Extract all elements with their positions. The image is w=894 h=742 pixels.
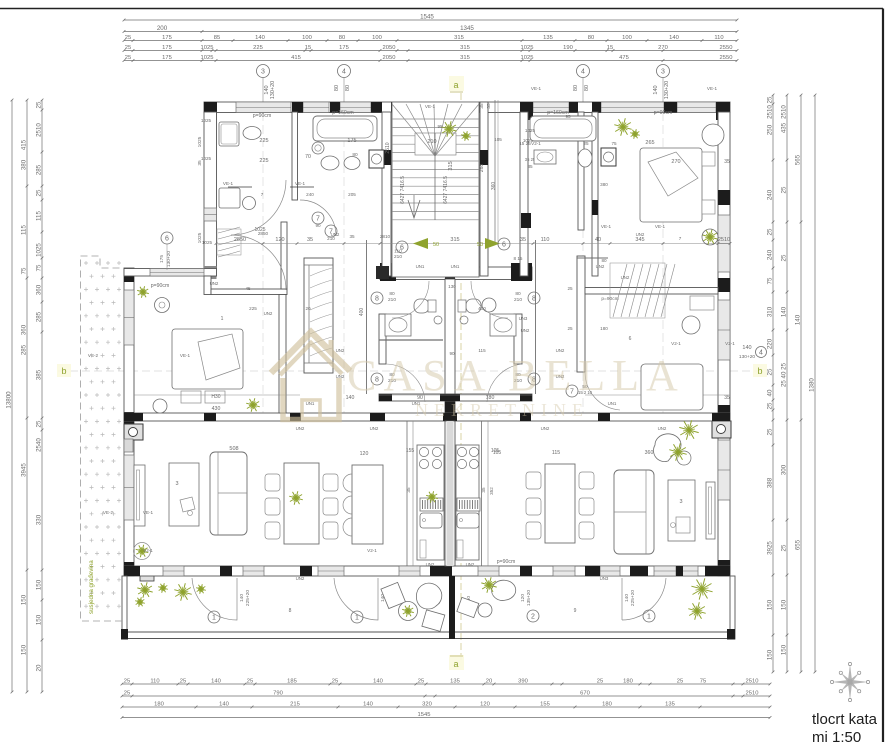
svg-text:315: 315 bbox=[448, 161, 454, 170]
svg-text:140: 140 bbox=[653, 85, 659, 94]
svg-text:315: 315 bbox=[460, 45, 470, 51]
bath2 sink circle bbox=[312, 142, 324, 154]
svg-text:3945: 3945 bbox=[21, 463, 28, 477]
door arcs top block bbox=[300, 200, 336, 236]
svg-text:25: 25 bbox=[767, 402, 774, 409]
svg-text:80: 80 bbox=[389, 291, 395, 297]
svg-text:225: 225 bbox=[253, 45, 263, 51]
svg-text:80: 80 bbox=[352, 152, 358, 158]
svg-text:140: 140 bbox=[669, 35, 679, 41]
wall second mid (bath south) bbox=[379, 394, 532, 401]
svg-text:140: 140 bbox=[239, 594, 245, 602]
corner pier circles bbox=[124, 424, 143, 440]
svg-text:75: 75 bbox=[21, 267, 28, 274]
svg-text:VE-1: VE-1 bbox=[295, 181, 306, 186]
svg-text:240: 240 bbox=[767, 249, 774, 260]
svg-text:35: 35 bbox=[349, 234, 355, 239]
svg-text:1: 1 bbox=[355, 614, 359, 621]
svg-text:7: 7 bbox=[261, 192, 264, 197]
svg-text:215: 215 bbox=[290, 702, 300, 708]
svg-text:150: 150 bbox=[767, 599, 774, 610]
bedroom right bed bbox=[640, 148, 702, 222]
frame top line bbox=[0, 8, 883, 10]
svg-text:150: 150 bbox=[36, 579, 43, 590]
svg-text:300: 300 bbox=[781, 464, 788, 475]
svg-text:35: 35 bbox=[307, 237, 313, 243]
svg-text:75: 75 bbox=[767, 277, 774, 284]
svg-text:20: 20 bbox=[36, 664, 43, 671]
svg-text:35: 35 bbox=[724, 395, 730, 401]
svg-text:CASA BELLA: CASA BELLA bbox=[347, 351, 685, 400]
svg-text:670: 670 bbox=[580, 691, 590, 697]
compass rose bbox=[848, 664, 852, 682]
svg-text:6: 6 bbox=[502, 241, 506, 248]
svg-text:415: 415 bbox=[291, 55, 301, 61]
svg-text:6427 7416.5: 6427 7416.5 bbox=[443, 176, 449, 204]
svg-text:2540: 2540 bbox=[36, 438, 43, 452]
svg-text:380: 380 bbox=[600, 182, 608, 187]
svg-text:4: 4 bbox=[581, 68, 585, 75]
svg-text:110: 110 bbox=[541, 237, 550, 243]
svg-text:80: 80 bbox=[588, 35, 594, 41]
svg-text:315: 315 bbox=[460, 55, 470, 61]
svg-text:352: 352 bbox=[489, 487, 494, 495]
cbath right toilet bbox=[466, 299, 481, 313]
svg-text:1380: 1380 bbox=[809, 378, 816, 392]
svg-text:200: 200 bbox=[157, 25, 168, 32]
svg-text:270: 270 bbox=[658, 45, 668, 51]
svg-text:140: 140 bbox=[363, 702, 373, 708]
section line b-b bbox=[58, 370, 768, 372]
svg-text:150: 150 bbox=[781, 599, 788, 610]
svg-text:508: 508 bbox=[229, 446, 238, 452]
svg-text:p=90cm: p=90cm bbox=[151, 283, 170, 289]
interior wall verticals upper block bbox=[292, 112, 298, 200]
svg-text:25: 25 bbox=[36, 420, 43, 427]
svg-text:150: 150 bbox=[781, 644, 788, 655]
svg-text:130: 130 bbox=[448, 284, 456, 289]
svg-text:15 25: 15 25 bbox=[519, 141, 531, 146]
svg-text:1025: 1025 bbox=[525, 128, 536, 133]
svg-text:110: 110 bbox=[394, 249, 402, 255]
svg-text:NEKRETNINE: NEKRETNINE bbox=[415, 400, 589, 420]
svg-text:25: 25 bbox=[767, 228, 774, 235]
top wall piers bbox=[204, 102, 217, 120]
kitchen back walls bbox=[406, 421, 408, 566]
svg-text:180: 180 bbox=[600, 326, 608, 331]
svg-text:140: 140 bbox=[211, 679, 221, 685]
svg-text:175: 175 bbox=[162, 35, 172, 41]
svg-text:25: 25 bbox=[567, 286, 573, 291]
svg-text:50: 50 bbox=[433, 242, 439, 248]
green arrow right bbox=[485, 238, 500, 249]
svg-text:80: 80 bbox=[334, 85, 340, 91]
svg-text:V2-1: V2-1 bbox=[367, 548, 377, 553]
right dimension chain bbox=[772, 95, 774, 672]
svg-text:45: 45 bbox=[245, 286, 251, 291]
svg-text:25: 25 bbox=[597, 679, 603, 685]
svg-text:25: 25 bbox=[332, 679, 338, 685]
svg-text:105: 105 bbox=[494, 137, 502, 142]
bath1 washer bbox=[219, 122, 239, 146]
svg-text:1545: 1545 bbox=[418, 712, 431, 718]
svg-text:35: 35 bbox=[724, 159, 730, 165]
armchair right living bbox=[653, 434, 681, 462]
svg-text:35: 35 bbox=[527, 164, 533, 169]
svg-text:VE-1: VE-1 bbox=[707, 86, 718, 91]
svg-text:90: 90 bbox=[315, 223, 321, 228]
svg-text:40: 40 bbox=[595, 237, 601, 243]
wall under stairs bbox=[380, 267, 532, 280]
svg-text:320: 320 bbox=[422, 702, 432, 708]
svg-text:UN1: UN1 bbox=[608, 401, 617, 406]
party wall lower bbox=[445, 421, 455, 566]
svg-text:2810: 2810 bbox=[380, 234, 391, 239]
svg-text:120: 120 bbox=[520, 594, 526, 602]
svg-text:265: 265 bbox=[645, 140, 654, 146]
svg-text:8: 8 bbox=[289, 608, 292, 614]
svg-text:130+20: 130+20 bbox=[739, 354, 755, 360]
svg-text:175: 175 bbox=[162, 45, 172, 51]
svg-text:70: 70 bbox=[305, 154, 311, 160]
living left dining table bbox=[284, 463, 319, 544]
svg-text:UN2: UN2 bbox=[210, 281, 219, 286]
svg-text:UN2: UN2 bbox=[370, 426, 379, 431]
svg-text:175: 175 bbox=[159, 255, 165, 263]
svg-text:UN1: UN1 bbox=[451, 264, 460, 269]
svg-text:285: 285 bbox=[36, 164, 43, 175]
bath2 washer bbox=[369, 150, 384, 168]
svg-text:175: 175 bbox=[339, 45, 349, 51]
bath1 sink bbox=[243, 127, 261, 140]
stairwell bbox=[392, 102, 479, 277]
plants near stair top bbox=[449, 129, 457, 131]
svg-text:35: 35 bbox=[486, 103, 491, 109]
svg-text:1025: 1025 bbox=[201, 156, 212, 161]
svg-text:315: 315 bbox=[454, 35, 464, 41]
living left table3 bbox=[169, 463, 199, 526]
bath2 bidet bbox=[344, 157, 360, 170]
svg-text:225: 225 bbox=[249, 306, 257, 311]
cbath left toilet bbox=[414, 299, 429, 313]
balcony furniture left-right group bbox=[381, 582, 445, 631]
svg-text:2850: 2850 bbox=[234, 237, 246, 243]
svg-text:130+20: 130+20 bbox=[664, 81, 670, 100]
svg-text:VE-1: VE-1 bbox=[601, 224, 612, 229]
svg-text:1: 1 bbox=[221, 316, 224, 322]
svg-text:35: 35 bbox=[481, 487, 486, 493]
svg-text:2510: 2510 bbox=[746, 691, 759, 697]
svg-text:VE-1: VE-1 bbox=[223, 181, 234, 186]
svg-text:13800: 13800 bbox=[6, 391, 13, 409]
green arrow left bbox=[413, 238, 428, 249]
balcony furniture right unit bbox=[457, 580, 516, 617]
dark utility box bbox=[376, 266, 389, 279]
svg-text:240: 240 bbox=[767, 189, 774, 200]
svg-text:1025: 1025 bbox=[521, 45, 534, 51]
svg-text:80: 80 bbox=[601, 258, 607, 263]
svg-text:25: 25 bbox=[125, 35, 131, 41]
hall boundary thin walls bbox=[366, 240, 368, 394]
svg-text:80: 80 bbox=[515, 291, 521, 297]
svg-text:15: 15 bbox=[607, 45, 613, 51]
svg-text:UN3: UN3 bbox=[519, 316, 528, 321]
svg-text:25: 25 bbox=[781, 544, 788, 551]
svg-text:380: 380 bbox=[21, 159, 28, 170]
svg-text:b: b bbox=[757, 366, 762, 376]
svg-text:115: 115 bbox=[36, 211, 43, 221]
svg-text:p=90cm: p=90cm bbox=[253, 113, 272, 119]
svg-text:25: 25 bbox=[767, 368, 774, 375]
bath3 toilet bbox=[578, 149, 592, 167]
svg-text:25: 25 bbox=[125, 55, 131, 61]
left dimension chain bbox=[11, 100, 13, 692]
living left TV cabinet bbox=[134, 465, 145, 526]
wall left main bbox=[124, 268, 134, 576]
svg-text:mj 1:50: mj 1:50 bbox=[812, 729, 861, 742]
svg-text:1025: 1025 bbox=[521, 55, 534, 61]
bath2 bathtub bbox=[313, 116, 377, 141]
svg-text:25: 25 bbox=[583, 141, 589, 146]
svg-text:155: 155 bbox=[540, 702, 550, 708]
svg-text:V2-1: V2-1 bbox=[671, 341, 681, 346]
svg-text:UN2: UN2 bbox=[636, 232, 645, 237]
svg-text:100: 100 bbox=[372, 35, 382, 41]
svg-text:155: 155 bbox=[406, 448, 415, 454]
svg-text:135+20: 135+20 bbox=[526, 590, 532, 606]
svg-text:1025: 1025 bbox=[201, 45, 214, 51]
wardrobe hatch left bbox=[217, 227, 241, 257]
balcony door arcs bbox=[192, 578, 237, 620]
svg-text:135: 135 bbox=[665, 702, 675, 708]
svg-text:p=90cm: p=90cm bbox=[601, 296, 618, 302]
section line a-a bbox=[460, 93, 462, 660]
svg-text:2510: 2510 bbox=[36, 123, 43, 137]
svg-text:20: 20 bbox=[305, 306, 311, 311]
svg-text:95: 95 bbox=[437, 124, 443, 129]
svg-text:8: 8 bbox=[532, 295, 536, 302]
svg-text:475: 475 bbox=[619, 55, 629, 61]
balcony slab left bbox=[122, 576, 127, 639]
svg-text:360: 360 bbox=[491, 182, 497, 191]
svg-text:135: 135 bbox=[450, 679, 460, 685]
door arcs central bbox=[392, 281, 429, 318]
svg-text:UN3: UN3 bbox=[600, 576, 609, 581]
svg-text:1025: 1025 bbox=[197, 136, 203, 147]
svg-text:140: 140 bbox=[781, 306, 788, 317]
svg-text:565: 565 bbox=[795, 154, 802, 165]
svg-text:150: 150 bbox=[21, 594, 28, 605]
svg-text:225+20: 225+20 bbox=[630, 590, 636, 606]
wall bottom main bbox=[124, 566, 730, 576]
bath1 shower + stool bbox=[219, 188, 240, 208]
corridor dim line bbox=[216, 243, 730, 245]
svg-text:388: 388 bbox=[767, 477, 774, 488]
svg-text:130+20: 130+20 bbox=[270, 81, 276, 100]
svg-text:345: 345 bbox=[635, 237, 644, 243]
living left island bbox=[352, 465, 383, 544]
living left sofa bbox=[210, 452, 247, 535]
svg-text:7: 7 bbox=[679, 236, 682, 241]
terrace dashed outline bbox=[81, 256, 123, 621]
svg-text:20: 20 bbox=[486, 679, 492, 685]
party wall stem bbox=[445, 279, 455, 413]
svg-text:25: 25 bbox=[180, 679, 186, 685]
svg-text:VE-1: VE-1 bbox=[425, 104, 436, 109]
svg-text:790: 790 bbox=[273, 691, 283, 697]
svg-text:3: 3 bbox=[175, 481, 178, 487]
top dimension chain bbox=[124, 19, 737, 21]
living left plants bbox=[296, 498, 303, 500]
bedroom1 bed bbox=[172, 329, 243, 389]
svg-text:4: 4 bbox=[759, 349, 763, 356]
svg-text:385: 385 bbox=[36, 369, 43, 380]
svg-text:400: 400 bbox=[478, 306, 486, 311]
svg-text:UN2: UN2 bbox=[264, 311, 273, 316]
svg-text:UN2: UN2 bbox=[658, 426, 667, 431]
svg-text:25: 25 bbox=[247, 679, 253, 685]
svg-text:115: 115 bbox=[552, 450, 560, 456]
right balcony pier bbox=[676, 566, 683, 576]
svg-text:6: 6 bbox=[165, 235, 169, 242]
svg-text:35: 35 bbox=[479, 103, 484, 109]
svg-text:UN2: UN2 bbox=[466, 562, 475, 567]
svg-text:2510: 2510 bbox=[385, 142, 391, 153]
svg-text:3: 3 bbox=[661, 68, 665, 75]
svg-text:285: 285 bbox=[36, 311, 43, 322]
svg-text:80: 80 bbox=[345, 85, 351, 91]
svg-text:25: 25 bbox=[567, 326, 573, 331]
terrace dot pattern bbox=[84, 261, 121, 608]
svg-text:50: 50 bbox=[477, 242, 483, 248]
svg-text:8: 8 bbox=[375, 295, 379, 302]
svg-text:190: 190 bbox=[563, 45, 573, 51]
balcony divider bbox=[449, 576, 455, 639]
svg-text:a: a bbox=[453, 80, 458, 90]
bath2 toilet bbox=[321, 156, 339, 170]
svg-text:435: 435 bbox=[781, 122, 788, 133]
svg-text:85: 85 bbox=[214, 35, 220, 41]
svg-text:25: 25 bbox=[781, 186, 788, 193]
svg-text:25: 25 bbox=[36, 101, 43, 108]
svg-text:225: 225 bbox=[259, 158, 268, 164]
svg-text:9: 9 bbox=[574, 608, 577, 614]
wall h left y270 bbox=[124, 269, 217, 277]
svg-text:80: 80 bbox=[584, 85, 590, 91]
svg-text:35: 35 bbox=[406, 487, 411, 493]
living right TV bbox=[706, 482, 715, 539]
svg-text:210: 210 bbox=[514, 297, 522, 303]
svg-text:315: 315 bbox=[450, 237, 459, 243]
svg-text:135: 135 bbox=[543, 35, 553, 41]
svg-text:UN2: UN2 bbox=[336, 348, 345, 353]
svg-text:225: 225 bbox=[259, 138, 268, 144]
living right sofa bbox=[614, 470, 654, 554]
closet C-wall left unit bbox=[304, 258, 333, 373]
bath3 bathtub bbox=[530, 116, 596, 141]
svg-text:150: 150 bbox=[21, 644, 28, 655]
svg-text:VE-1: VE-1 bbox=[531, 86, 542, 91]
svg-text:p=160cm: p=160cm bbox=[332, 110, 354, 116]
svg-text:2510: 2510 bbox=[718, 237, 730, 243]
bedroom1 round table bbox=[153, 399, 167, 413]
svg-text:655: 655 bbox=[795, 539, 802, 550]
wall mid horizontal main bbox=[124, 413, 730, 421]
svg-text:285: 285 bbox=[21, 344, 28, 355]
svg-text:268: 268 bbox=[479, 164, 485, 173]
svg-text:3925: 3925 bbox=[767, 541, 774, 555]
plant bedroom1 bbox=[253, 405, 260, 407]
svg-text:205: 205 bbox=[348, 192, 356, 197]
svg-text:2510: 2510 bbox=[767, 105, 774, 119]
svg-text:6: 6 bbox=[629, 336, 632, 342]
living right dining table bbox=[545, 464, 575, 543]
svg-text:25: 25 bbox=[767, 428, 774, 435]
svg-text:95: 95 bbox=[565, 114, 571, 119]
svg-text:140: 140 bbox=[255, 35, 265, 41]
svg-text:8 15: 8 15 bbox=[514, 256, 523, 261]
svg-text:310: 310 bbox=[767, 306, 774, 317]
outer wall top bbox=[204, 102, 730, 113]
svg-text:415: 415 bbox=[21, 139, 28, 150]
svg-text:75: 75 bbox=[611, 141, 617, 146]
door arc right bedroom bbox=[585, 372, 620, 410]
svg-text:430: 430 bbox=[212, 406, 221, 412]
grid bubbles 3 4 4 3 bbox=[257, 65, 270, 78]
svg-text:220: 220 bbox=[767, 338, 774, 349]
svg-text:25: 25 bbox=[767, 96, 774, 103]
svg-text:100: 100 bbox=[302, 35, 312, 41]
svg-text:25: 25 bbox=[677, 679, 683, 685]
svg-text:25: 25 bbox=[36, 189, 43, 196]
wall right outer bbox=[718, 112, 730, 576]
interior walls middle band left unit bbox=[204, 276, 211, 295]
svg-text:1025: 1025 bbox=[201, 118, 212, 123]
svg-text:110: 110 bbox=[714, 35, 723, 41]
svg-text:p=90cm: p=90cm bbox=[654, 110, 673, 116]
svg-text:1545: 1545 bbox=[420, 14, 434, 21]
bath3 sink bbox=[534, 150, 556, 164]
svg-text:270: 270 bbox=[671, 159, 680, 165]
svg-text:15: 15 bbox=[305, 45, 311, 51]
svg-text:120: 120 bbox=[480, 702, 490, 708]
svg-text:175: 175 bbox=[162, 55, 172, 61]
svg-text:25: 25 bbox=[781, 254, 788, 261]
svg-text:p=90cm: p=90cm bbox=[497, 559, 516, 565]
svg-text:360: 360 bbox=[36, 284, 43, 295]
wall left upper bbox=[204, 112, 217, 276]
svg-text:7: 7 bbox=[316, 215, 320, 222]
svg-text:210: 210 bbox=[394, 254, 402, 260]
svg-text:4: 4 bbox=[342, 68, 346, 75]
living right table3 bbox=[668, 480, 695, 541]
svg-text:UN2: UN2 bbox=[331, 232, 340, 237]
svg-text:b: b bbox=[61, 366, 66, 376]
balcony plants left bbox=[145, 590, 153, 592]
svg-text:210: 210 bbox=[427, 139, 436, 145]
svg-text:75: 75 bbox=[700, 679, 706, 685]
svg-text:120: 120 bbox=[275, 237, 284, 243]
svg-text:120: 120 bbox=[360, 451, 369, 457]
svg-text:6427 7416.5: 6427 7416.5 bbox=[400, 176, 406, 204]
svg-text:2050: 2050 bbox=[383, 45, 396, 51]
svg-text:210: 210 bbox=[388, 297, 396, 303]
svg-text:V2-1: V2-1 bbox=[725, 341, 735, 346]
svg-text:140: 140 bbox=[624, 594, 630, 602]
svg-text:3: 3 bbox=[679, 499, 682, 505]
svg-text:185: 185 bbox=[287, 679, 297, 685]
svg-text:VE-1: VE-1 bbox=[143, 510, 154, 515]
